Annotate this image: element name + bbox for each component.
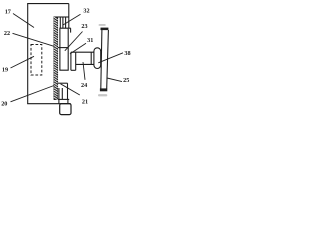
- leader 21: [61, 84, 80, 95]
- svg-text:21: 21: [82, 98, 88, 105]
- bolt 32 shank right: [65, 17, 67, 28]
- plate 17 step: [69, 27, 71, 29]
- stem right: [67, 99, 69, 103]
- plate 25 top cap: [101, 28, 109, 31]
- svg-text:38: 38: [124, 50, 130, 57]
- leader 32: [63, 14, 81, 25]
- foot box: [60, 104, 71, 115]
- wall 22 hatched strip left edge: [53, 17, 55, 100]
- leader 20: [11, 86, 55, 102]
- svg-text:20: 20: [1, 101, 7, 108]
- hatching of wall 22: [54, 17, 58, 100]
- leader 25: [107, 78, 122, 82]
- svg-text:25: 25: [123, 77, 129, 84]
- leader 24: [83, 62, 85, 80]
- faint bar above plate 25: [99, 24, 106, 26]
- slider block bottom: [71, 69, 76, 71]
- lower bolt middle: [61, 88, 63, 99]
- leader 38: [98, 53, 123, 63]
- svg-text:32: 32: [83, 7, 89, 14]
- shaft bottom line: [76, 63, 94, 65]
- leader 19: [11, 56, 35, 68]
- plate 25 left edge: [101, 30, 102, 89]
- leader 23: [65, 32, 83, 51]
- plate 17 right edge: [68, 4, 70, 29]
- shaft top line: [71, 51, 94, 53]
- plate 25 bottom cap: [100, 88, 107, 91]
- bolt 32 shank middle: [62, 17, 64, 28]
- shaft right edge 31: [90, 52, 92, 64]
- faint bar below plate 25: [98, 94, 107, 96]
- plate 17 left edge: [27, 4, 29, 104]
- plate 25 right edge: [107, 30, 109, 89]
- svg-text:17: 17: [5, 8, 11, 15]
- wall 22 hatched strip right edge: [57, 17, 59, 100]
- svg-text:31: 31: [87, 37, 93, 44]
- slider block right edge: [75, 52, 77, 70]
- lower block right edge: [67, 83, 69, 99]
- leader 22: [13, 33, 55, 46]
- dashed hidden slot 19: [31, 45, 42, 76]
- lower bolt left: [58, 88, 60, 104]
- bolt 32 shank left: [59, 17, 61, 28]
- plate 17 bottom edge: [27, 103, 70, 105]
- wall 22 top cap: [54, 16, 69, 18]
- slider block left edge: [70, 52, 72, 70]
- svg-text:23: 23: [81, 23, 87, 30]
- svg-text:22: 22: [4, 30, 10, 37]
- leader 31: [70, 43, 86, 54]
- bracket stub: [70, 28, 72, 32]
- svg-text:19: 19: [2, 67, 8, 74]
- lower block top: [57, 82, 68, 84]
- plate 17 top edge: [27, 3, 69, 5]
- svg-text:24: 24: [81, 82, 87, 89]
- block 23 mid line: [58, 47, 69, 49]
- roller capsule: [94, 48, 101, 69]
- shelf line: [54, 98, 69, 100]
- leader 17: [13, 14, 34, 28]
- block 23 outline: [60, 28, 68, 70]
